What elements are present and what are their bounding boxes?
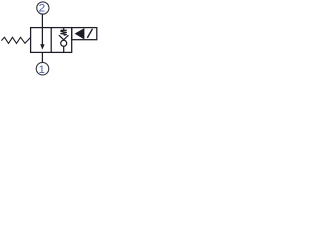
check spring seat bar (61, 29, 67, 31)
svg-text:2: 2 (39, 3, 46, 15)
left position flow arrow shaft (41, 28, 43, 46)
svg-text:1: 1 (39, 64, 45, 76)
solenoid box (72, 28, 97, 40)
port circle 1 (36, 62, 49, 75)
spring actuator (1, 37, 30, 43)
check stem to bottom (63, 46, 65, 52)
check ball (61, 40, 67, 46)
wire port2 to valve (41, 14, 43, 27)
valve envelope (31, 28, 72, 53)
check seat V (59, 35, 69, 40)
left position flow arrowhead (40, 44, 44, 49)
wire valve to port1 (41, 52, 43, 62)
check stub from top (63, 28, 65, 31)
port circle 2 (37, 2, 49, 14)
solenoid slash (87, 29, 92, 38)
solenoid triangle (75, 28, 85, 39)
envelope divider (50, 28, 52, 53)
check small spring (60, 30, 66, 35)
